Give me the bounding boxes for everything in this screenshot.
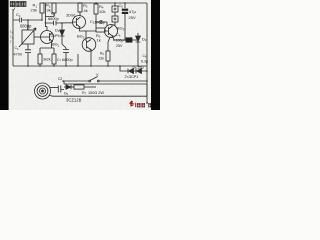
svg-text:23k: 23k [31, 8, 37, 13]
svg-text:4700: 4700 [14, 53, 22, 57]
svg-text:C6: C6 [116, 32, 121, 38]
wire coil lower to box bottom [50, 95, 148, 98]
svg-text:1k: 1k [97, 37, 101, 42]
svg-text:BG2: BG2 [77, 34, 85, 40]
svg-text:6.3μ: 6.3μ [141, 60, 148, 64]
resistor R1 [40, 3, 44, 13]
wire rectifier branch [120, 66, 147, 71]
svg-text:D5: D5 [64, 91, 69, 96]
wire BG1 emitter [40, 42, 54, 54]
svg-text:C7: C7 [57, 58, 61, 63]
svg-text:C5: C5 [119, 3, 124, 9]
svg-text:6800p: 6800p [62, 58, 73, 62]
connector CZ [58, 86, 64, 93]
capacitor C1 [46, 21, 73, 26]
charger box [64, 84, 147, 96]
wire L to BG1 base [34, 36, 41, 38]
watermark logo [129, 101, 151, 108]
wire left rail [12, 9, 14, 66]
diode D5 [66, 85, 71, 89]
svg-text:C21000p: C21000p [90, 20, 105, 25]
resistor Ra 1k [38, 54, 42, 64]
svg-text:D2: D2 [142, 36, 147, 42]
svg-text:C4: C4 [16, 12, 21, 18]
svg-text:4k: 4k [84, 8, 88, 13]
switch K [89, 80, 91, 82]
capacitor C4 [13, 18, 42, 23]
svg-text:D6 25V: D6 25V [133, 65, 145, 70]
svg-text:C3: C3 [15, 46, 19, 51]
svg-text:C8: C8 [143, 54, 147, 59]
svg-text:22k: 22k [99, 57, 105, 61]
inductor L (magnetic rod in shield) [22, 30, 34, 44]
diode D4a [128, 69, 134, 74]
svg-text:CZ: CZ [58, 77, 62, 81]
wire BG2 base [85, 31, 87, 41]
diode D2 [137, 33, 139, 36]
wire Q1 emitter to node [80, 29, 97, 32]
pickup coil [35, 83, 51, 99]
wire BG2 emitter [90, 51, 92, 67]
wire coil to connector [50, 87, 58, 89]
resistor R3 [78, 3, 82, 12]
value labels [14, 3, 149, 103]
capacitor C7 6800p [63, 48, 69, 66]
scan smudge marks [11, 30, 12, 43]
wire stub [77, 54, 79, 66]
capacitor C6 electrolytic [114, 39, 126, 41]
svg-text:3DG6: 3DG6 [66, 14, 75, 18]
wire BG3 collector [111, 22, 115, 25]
svg-text:R6: R6 [100, 52, 104, 57]
svg-text:25V: 25V [129, 15, 136, 20]
resistor R7 [74, 85, 84, 89]
label 棒外罩 (CJK mimic) [10, 1, 26, 10]
svg-text:100μ: 100μ [116, 39, 124, 43]
svg-text:25V: 25V [116, 44, 123, 48]
svg-text:2×3CP1: 2×3CP1 [125, 75, 139, 79]
wire BG1 collector [46, 26, 48, 31]
wire BG3 emitter [113, 37, 114, 40]
junction dots [27, 2, 148, 82]
left black bar [0, 0, 9, 110]
wire mid ground rail [13, 65, 147, 67]
capacitor C2 [96, 20, 107, 26]
transistor BG1 [41, 31, 54, 44]
diode D1 2AP9 [61, 23, 63, 30]
svg-text:150Ω 2W: 150Ω 2W [88, 91, 104, 95]
svg-text:3CZ12B: 3CZ12B [66, 97, 82, 102]
svg-text:R7: R7 [82, 91, 87, 96]
svg-text:47μ: 47μ [129, 9, 136, 14]
right black bar [151, 0, 160, 110]
svg-text:10k: 10k [99, 9, 105, 14]
svg-text:BG1: BG1 [52, 42, 60, 48]
svg-text:D1: D1 [55, 27, 60, 33]
svg-text:6800p: 6800p [48, 16, 59, 21]
transistor BG2 [82, 38, 96, 52]
capacitor C3 [25, 50, 31, 66]
svg-text:2k: 2k [47, 57, 51, 61]
resistor R4 [94, 4, 98, 14]
capacitor C5 electrolytic [124, 3, 126, 8]
wire box row [64, 86, 66, 88]
svg-text:BG3: BG3 [117, 26, 125, 32]
diode D4b [136, 69, 142, 74]
svg-text:2AP9: 2AP9 [51, 34, 60, 38]
resistor Rb 2k [52, 54, 56, 64]
wire top rail [42, 2, 147, 4]
wire switch rail [64, 81, 147, 84]
transistor Q1 3DG6 [73, 16, 86, 29]
transistor BG3 [105, 25, 118, 38]
svg-text:L: L [27, 26, 29, 30]
jack box lower [112, 16, 118, 22]
wire Q1 collector [79, 12, 81, 16]
resistor R6 [106, 51, 110, 61]
resistor R5 [96, 28, 105, 32]
jack box upper [112, 6, 118, 12]
resistor R2 [46, 3, 55, 27]
wire right rail [146, 3, 148, 104]
